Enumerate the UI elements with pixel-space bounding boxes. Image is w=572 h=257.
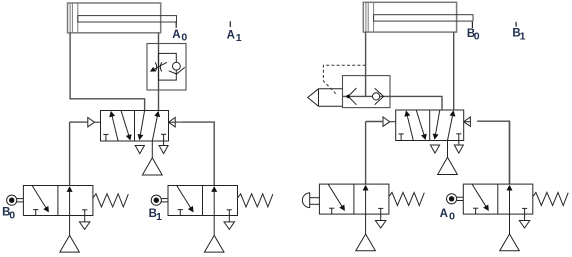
svg-text:0: 0 (9, 209, 15, 221)
svg-text:A: A (227, 29, 235, 41)
svg-text:0: 0 (449, 211, 455, 223)
svg-text:1: 1 (520, 30, 526, 42)
svg-text:A: A (440, 208, 448, 220)
svg-text:0: 0 (474, 31, 480, 43)
svg-text:0: 0 (181, 32, 187, 44)
svg-text:1: 1 (236, 32, 242, 44)
svg-text:1: 1 (156, 211, 162, 223)
svg-text:A: A (172, 29, 180, 41)
